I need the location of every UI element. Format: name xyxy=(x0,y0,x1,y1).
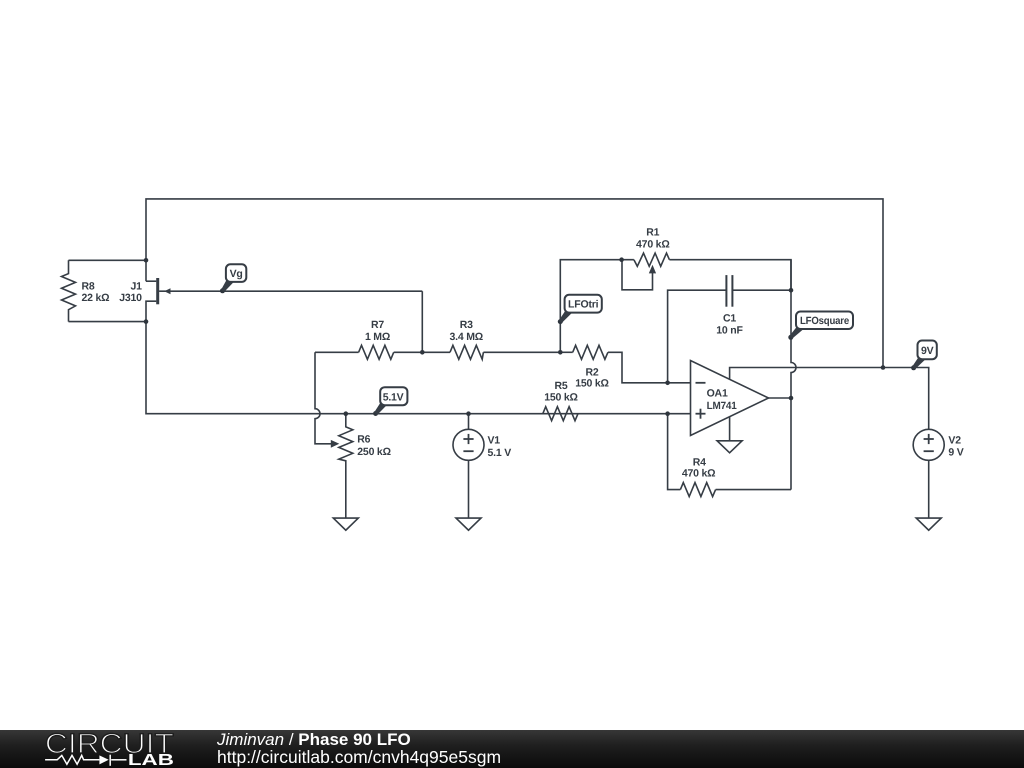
potentiometer R1 xyxy=(634,253,670,266)
node op-amp minus input xyxy=(665,381,670,386)
voltage source V2 bottom lead xyxy=(928,460,930,518)
logo diode doodle xyxy=(99,755,108,764)
wire J1 gate (net Vg) xyxy=(159,290,422,292)
wire op-amp output xyxy=(769,397,792,399)
flag LFOsquare pointer xyxy=(789,327,804,339)
wire 9V rail right to V2 xyxy=(883,368,929,430)
potentiometer R1 wiper arrow xyxy=(649,265,656,274)
resistor R3 xyxy=(450,345,483,359)
node J1 drain / R8 top xyxy=(144,258,149,263)
svg-text:250 kΩ: 250 kΩ xyxy=(357,446,391,458)
node flag 5.1V attach dot xyxy=(373,411,378,416)
svg-text:LFOtri: LFOtri xyxy=(568,299,599,311)
footer bar xyxy=(0,730,1024,768)
wire R3 to LFOtri node xyxy=(483,351,560,353)
wire R4 left to op-amp plus node xyxy=(668,414,681,490)
svg-text:R3: R3 xyxy=(460,319,473,331)
capacitor C1 left plate xyxy=(725,275,727,307)
node R6 top xyxy=(344,411,349,416)
node LFOtri junction xyxy=(558,350,563,355)
flag 5.1V pointer xyxy=(374,402,387,415)
node 9V rail / top loop xyxy=(881,365,886,370)
svg-text:V1: V1 xyxy=(488,434,501,446)
node flag 9V attach dot xyxy=(911,365,916,370)
svg-text:R2: R2 xyxy=(585,366,598,378)
voltage source V1 bottom lead xyxy=(468,460,470,518)
wire C1 left plate to op-amp minus node xyxy=(668,290,727,383)
wire LFOtri node to R2 xyxy=(560,351,572,353)
node Vg riser / R7-R3 xyxy=(420,350,425,355)
svg-text:LFOsquare: LFOsquare xyxy=(800,315,849,327)
svg-text:9 V: 9 V xyxy=(948,447,963,459)
svg-text:5.1 V: 5.1 V xyxy=(488,447,512,459)
svg-text:J1: J1 xyxy=(131,281,143,293)
node flag Vg attach dot xyxy=(220,288,225,293)
svg-text:LAB: LAB xyxy=(128,751,174,767)
node flag LFOtri attach dot xyxy=(558,319,563,324)
wire output column with hop over 9V rail xyxy=(791,260,796,490)
ground at V1 xyxy=(456,518,481,530)
transistor J1 source lead xyxy=(146,301,156,321)
wire R1 right to output column xyxy=(669,260,791,291)
wire R7 drop with hop over 5.1V rail to R6 wiper xyxy=(315,352,336,444)
svg-text:OA1: OA1 xyxy=(707,388,728,400)
footer title xyxy=(217,730,411,750)
voltage source V1 top lead xyxy=(468,414,470,430)
node V1 top xyxy=(466,411,471,416)
flag LFOtri box xyxy=(565,295,602,313)
ground at op-amp V- xyxy=(717,441,742,453)
voltage source V1 body xyxy=(453,429,484,460)
svg-text:R6: R6 xyxy=(357,434,370,446)
logo resistor doodle xyxy=(45,754,126,765)
wire J1 source down and 5.1V rail to op-amp plus input xyxy=(146,322,691,414)
svg-text:R8: R8 xyxy=(82,281,95,293)
op-amp OA1 triangle xyxy=(691,361,769,436)
svg-text:470 kΩ: 470 kΩ xyxy=(636,239,670,251)
wire R2 elbow to op-amp minus input xyxy=(608,352,691,383)
node op-amp plus input xyxy=(665,411,670,416)
ground at R6 xyxy=(333,518,358,530)
svg-text:150 kΩ: 150 kΩ xyxy=(544,392,578,404)
wire R7 left lead xyxy=(315,351,359,353)
svg-text:5.1V: 5.1V xyxy=(383,392,404,404)
flag 5.1V box xyxy=(380,387,407,405)
flag Vg box xyxy=(226,264,246,282)
svg-text:1 MΩ: 1 MΩ xyxy=(365,331,390,343)
svg-text:C1: C1 xyxy=(723,312,736,324)
wire top supply loop from J1 drain to 9V rail xyxy=(146,199,883,368)
wire R8 bottom to J1 source node xyxy=(69,321,147,323)
wire R8 top to J1 drain node xyxy=(69,259,147,261)
op-amp OA1 plus sign xyxy=(696,413,706,415)
svg-text:3.4 MΩ: 3.4 MΩ xyxy=(450,331,483,343)
wire op-amp V- pin xyxy=(729,417,731,441)
op-amp OA1 minus sign xyxy=(696,382,706,384)
flag 9V box xyxy=(918,341,937,360)
node op-amp output xyxy=(789,396,794,401)
svg-text:10 nF: 10 nF xyxy=(716,325,743,337)
ground at V2 xyxy=(916,518,941,530)
transistor J1 channel bar xyxy=(156,278,159,304)
voltage source V1 plus mark xyxy=(463,438,473,440)
svg-text:22 kΩ: 22 kΩ xyxy=(82,292,110,304)
voltage source V2 plus mark xyxy=(924,438,934,440)
resistor R4 xyxy=(680,483,715,497)
flag 9V pointer xyxy=(912,357,926,369)
flag Vg pointer xyxy=(221,279,234,292)
wire R7 to R3 xyxy=(394,351,450,353)
transistor J1 gate arrow xyxy=(164,288,170,294)
capacitor C1 right plate xyxy=(731,275,733,307)
svg-text:J310: J310 xyxy=(119,292,142,304)
resistor R5 xyxy=(543,407,578,421)
svg-text:V2: V2 xyxy=(948,435,961,447)
svg-text:R1: R1 xyxy=(646,227,659,239)
resistor R8 xyxy=(62,260,76,321)
wire Vg riser down to R7-R3 node xyxy=(421,291,423,352)
potentiometer R6 xyxy=(339,414,353,518)
voltage source V2 minus mark xyxy=(924,450,934,452)
voltage source V2 body xyxy=(913,429,944,460)
voltage source V1 minus mark xyxy=(463,450,473,452)
footer url xyxy=(217,747,501,768)
wire R4 right to output column xyxy=(716,489,791,491)
resistor R7 xyxy=(359,345,394,359)
resistor R2 xyxy=(573,345,608,359)
svg-text:Vg: Vg xyxy=(230,268,243,280)
wire LFOtri riser up to R1 left xyxy=(560,260,634,353)
flag LFOtri pointer xyxy=(559,310,573,323)
svg-text:9V: 9V xyxy=(921,345,934,357)
wire C1 right plate to output column xyxy=(732,289,791,291)
node J1 source / R8 bottom xyxy=(144,319,149,324)
node C1 right / output column xyxy=(789,288,794,293)
svg-text:LM741: LM741 xyxy=(707,400,737,412)
wire R1 wiper return xyxy=(622,260,653,290)
node flag LFOsquare attach dot xyxy=(788,335,793,340)
svg-text:R5: R5 xyxy=(554,380,567,392)
svg-text:470 kΩ: 470 kΩ xyxy=(682,468,716,480)
node R1 left / wiper tie xyxy=(619,257,624,262)
potentiometer R6 wiper arrow xyxy=(331,440,340,448)
svg-text:R7: R7 xyxy=(371,319,384,331)
flag LFOsquare box xyxy=(796,312,853,330)
svg-text:150 kΩ: 150 kΩ xyxy=(575,378,609,390)
wire op-amp V+ pin to 9V rail xyxy=(730,368,883,380)
transistor J1 drain lead xyxy=(146,280,156,282)
